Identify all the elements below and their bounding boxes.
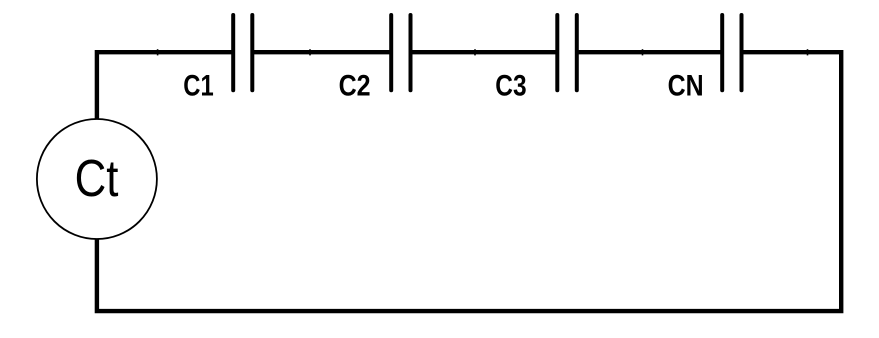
svg-text:C1: C1 bbox=[183, 70, 213, 103]
svg-text:C3: C3 bbox=[495, 70, 526, 103]
svg-text:CN: CN bbox=[668, 70, 704, 103]
svg-text:Ct: Ct bbox=[75, 149, 119, 207]
svg-text:C2: C2 bbox=[339, 70, 371, 103]
